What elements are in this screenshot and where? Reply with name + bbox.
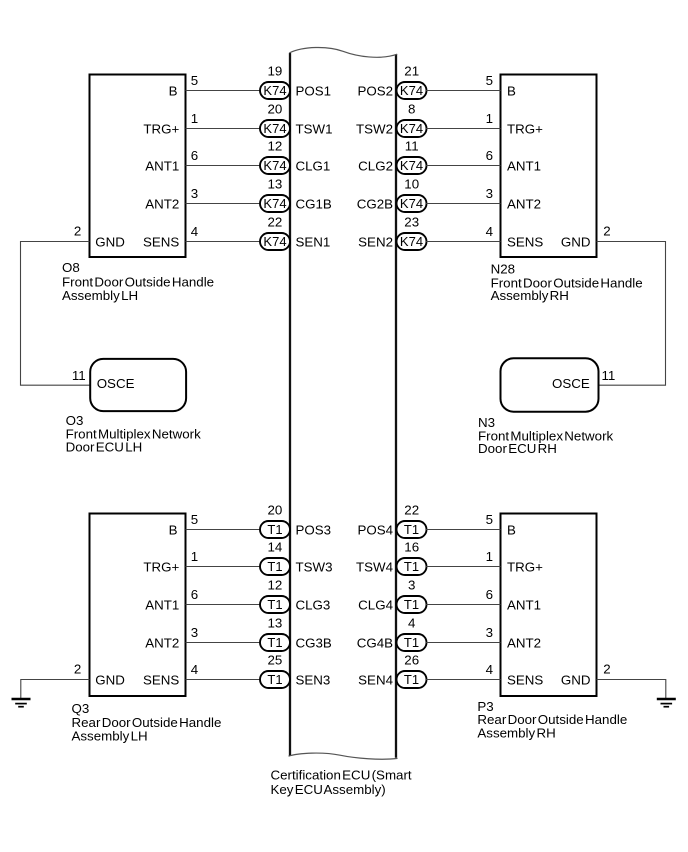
svg-text:11: 11	[602, 368, 616, 383]
svg-text:3: 3	[486, 186, 493, 201]
svg-text:6: 6	[191, 148, 198, 163]
wire CLG1 left	[186, 165, 262, 167]
svg-text:1: 1	[486, 549, 493, 564]
wire POS3 left	[186, 529, 262, 531]
svg-text:6: 6	[486, 587, 493, 602]
svg-text:CLG4: CLG4	[358, 597, 393, 612]
svg-text:CLG2: CLG2	[358, 158, 393, 173]
svg-text:8: 8	[408, 102, 415, 117]
svg-text:Door ECU LH: Door ECU LH	[66, 439, 143, 454]
svg-text:K74: K74	[400, 83, 423, 98]
svg-text:CLG1: CLG1	[296, 158, 331, 173]
svg-text:T1: T1	[267, 559, 282, 574]
svg-text:SEN1: SEN1	[296, 234, 331, 249]
svg-text:T1: T1	[267, 597, 282, 612]
svg-text:K74: K74	[263, 196, 286, 211]
svg-text:ANT1: ANT1	[145, 597, 179, 612]
wire TSW1 left	[186, 128, 262, 130]
N28 pin numbers 5 1 6 3 4	[486, 73, 494, 239]
svg-text:B: B	[169, 522, 178, 537]
wire O8 GND to O3 pin 11	[21, 242, 91, 386]
svg-text:GND: GND	[561, 672, 591, 687]
wire POS4 right	[426, 529, 501, 531]
svg-text:3: 3	[486, 625, 493, 640]
ground symbol left	[12, 699, 31, 707]
svg-text:K74: K74	[263, 234, 286, 249]
svg-text:GND: GND	[95, 234, 125, 249]
ground symbol right	[657, 699, 676, 707]
svg-text:T1: T1	[267, 522, 282, 537]
svg-text:T1: T1	[404, 597, 419, 612]
connector T1 pin 3 right	[397, 596, 427, 613]
caption Q3	[72, 701, 222, 743]
svg-text:ANT2: ANT2	[507, 635, 541, 650]
connector K74 pin 11 right	[397, 157, 427, 174]
svg-text:4: 4	[486, 662, 494, 677]
svg-text:Assembly LH: Assembly LH	[72, 728, 148, 743]
svg-text:T1: T1	[404, 635, 419, 650]
svg-text:23: 23	[404, 215, 419, 230]
svg-text:2: 2	[74, 661, 81, 676]
connector K74 pin 21 right	[397, 82, 427, 99]
svg-text:TSW3: TSW3	[296, 559, 333, 574]
svg-text:OSCE: OSCE	[552, 376, 590, 391]
svg-text:K74: K74	[263, 158, 286, 173]
caption N28	[491, 262, 643, 304]
svg-text:ANT2: ANT2	[145, 635, 179, 650]
svg-text:K74: K74	[400, 158, 423, 173]
wire TSW4 right	[426, 566, 501, 568]
wire POS2 right	[426, 90, 501, 92]
svg-text:T1: T1	[267, 635, 282, 650]
front multiplex network door ECU RH N3	[501, 358, 599, 411]
svg-text:Key ECU Assembly): Key ECU Assembly)	[271, 782, 386, 797]
svg-text:5: 5	[486, 512, 493, 527]
front door outside handle assembly LH O8	[90, 75, 186, 258]
connector T1 pin 12 left	[260, 596, 290, 613]
caption O3	[66, 413, 202, 454]
P3 pin numbers 5 1 6 3 4	[486, 512, 494, 677]
front multiplex network door ECU LH O3	[90, 359, 186, 411]
connector K74 pin 23 right	[397, 233, 427, 250]
P3 pin name labels	[507, 522, 591, 687]
svg-text:ANT2: ANT2	[145, 196, 179, 211]
svg-text:20: 20	[267, 503, 282, 518]
wire SEN1 left	[186, 241, 262, 243]
svg-text:T1: T1	[267, 672, 282, 687]
svg-text:CG2B: CG2B	[357, 196, 393, 211]
N28 pin name labels	[507, 83, 591, 249]
svg-text:GND: GND	[95, 672, 125, 687]
svg-text:25: 25	[267, 653, 282, 668]
svg-text:4: 4	[486, 224, 494, 239]
certification ECU torn bottom edge	[289, 753, 398, 759]
certification ECU bus right edge	[395, 54, 397, 758]
svg-text:19: 19	[267, 64, 282, 79]
Q3 pin name labels	[95, 522, 179, 687]
svg-text:TRG+: TRG+	[507, 559, 543, 574]
certification ECU torn top edge	[289, 47, 397, 57]
svg-text:K74: K74	[400, 196, 423, 211]
wire CG4B right	[426, 642, 501, 644]
connector T1 pin 22 right	[397, 521, 427, 538]
svg-text:2: 2	[74, 223, 81, 238]
connector K74 pin 13 left	[260, 195, 290, 212]
svg-text:K74: K74	[263, 83, 286, 98]
svg-text:4: 4	[191, 224, 199, 239]
svg-text:CG3B: CG3B	[296, 635, 332, 650]
svg-text:ANT1: ANT1	[507, 158, 541, 173]
svg-text:20: 20	[267, 102, 282, 117]
svg-text:K74: K74	[400, 234, 423, 249]
svg-text:Assembly LH: Assembly LH	[62, 288, 138, 303]
svg-text:2: 2	[603, 223, 610, 238]
caption O8	[62, 260, 214, 303]
wire CG1B left	[186, 203, 262, 205]
wire P3 GND to ground	[597, 680, 666, 699]
svg-text:6: 6	[486, 148, 493, 163]
svg-text:TSW1: TSW1	[296, 121, 333, 136]
svg-text:ANT1: ANT1	[145, 158, 179, 173]
wire SEN3 left	[186, 679, 262, 681]
wire SEN2 right	[426, 241, 501, 243]
svg-text:K74: K74	[400, 121, 423, 136]
svg-text:SENS: SENS	[143, 234, 179, 249]
svg-text:SENS: SENS	[143, 672, 179, 687]
svg-text:14: 14	[267, 540, 282, 555]
svg-text:CG1B: CG1B	[296, 196, 332, 211]
connector T1 pin 25 left	[260, 671, 290, 688]
svg-text:SENS: SENS	[507, 672, 543, 687]
svg-text:ANT1: ANT1	[507, 597, 541, 612]
svg-text:O8: O8	[62, 260, 80, 275]
connector T1 pin 4 right	[397, 634, 427, 651]
svg-text:13: 13	[267, 177, 282, 192]
svg-text:1: 1	[191, 549, 198, 564]
connector K74 pin 10 right	[397, 195, 427, 212]
svg-text:POS1: POS1	[296, 83, 332, 98]
svg-text:ANT2: ANT2	[507, 196, 541, 211]
svg-text:T1: T1	[404, 559, 419, 574]
svg-text:4: 4	[191, 662, 199, 677]
svg-text:5: 5	[191, 512, 198, 527]
svg-text:4: 4	[408, 616, 416, 631]
front door outside handle assembly RH N28	[501, 75, 597, 258]
svg-text:B: B	[507, 522, 516, 537]
svg-text:Certification ECU (Smart: Certification ECU (Smart	[271, 768, 412, 783]
svg-text:TSW4: TSW4	[356, 559, 394, 574]
svg-text:TRG+: TRG+	[143, 559, 179, 574]
svg-text:POS3: POS3	[296, 522, 332, 537]
connector K74 pin 8 right	[397, 120, 427, 137]
wire POS1 left	[186, 90, 262, 92]
svg-text:SENS: SENS	[507, 234, 543, 249]
svg-text:12: 12	[267, 578, 282, 593]
svg-text:26: 26	[404, 653, 419, 668]
connector T1 pin 26 right	[397, 671, 427, 688]
svg-text:22: 22	[267, 215, 282, 230]
svg-text:CLG3: CLG3	[296, 597, 331, 612]
connector K74 pin 22 left	[260, 233, 290, 250]
rear door outside handle assembly RH P3	[501, 514, 597, 697]
wire CG3B left	[186, 642, 262, 644]
svg-text:21: 21	[404, 64, 419, 79]
caption P3	[477, 699, 627, 740]
rear door outside handle assembly LH Q3	[90, 514, 186, 697]
wire TSW2 right	[426, 128, 501, 130]
wire CLG4 right	[426, 604, 501, 606]
svg-text:11: 11	[72, 368, 86, 383]
svg-text:CG4B: CG4B	[357, 635, 393, 650]
connector K74 pin 20 left	[260, 120, 290, 137]
svg-text:10: 10	[404, 177, 419, 192]
svg-text:TRG+: TRG+	[143, 121, 179, 136]
svg-text:Assembly RH: Assembly RH	[491, 288, 569, 303]
svg-text:5: 5	[191, 73, 198, 88]
connector T1 pin 16 right	[397, 558, 427, 575]
svg-text:POS2: POS2	[357, 83, 393, 98]
wire CLG2 right	[426, 165, 501, 167]
svg-text:1: 1	[191, 111, 198, 126]
svg-text:22: 22	[404, 503, 419, 518]
svg-text:16: 16	[404, 540, 419, 555]
wire CG2B right	[426, 203, 501, 205]
svg-text:N28: N28	[491, 262, 515, 277]
svg-text:5: 5	[486, 73, 493, 88]
wire N28 GND to N3 pin 11	[597, 242, 666, 386]
svg-text:3: 3	[408, 578, 415, 593]
svg-text:12: 12	[267, 139, 282, 154]
svg-text:1: 1	[486, 111, 493, 126]
svg-text:SEN2: SEN2	[358, 234, 393, 249]
connector T1 pin 20 left	[260, 521, 290, 538]
connector K74 pin 12 left	[260, 157, 290, 174]
wire CLG3 left	[186, 604, 262, 606]
connector T1 pin 13 left	[260, 634, 290, 651]
svg-text:OSCE: OSCE	[97, 376, 135, 391]
svg-text:13: 13	[267, 616, 282, 631]
svg-text:SEN3: SEN3	[296, 672, 331, 687]
svg-text:B: B	[169, 83, 178, 98]
connector K74 pin 19 left	[260, 82, 290, 99]
certification ECU bus left edge	[289, 53, 291, 756]
Q3 pin numbers 5 1 6 3 4	[191, 512, 199, 677]
certification ECU caption	[271, 768, 412, 797]
caption N3	[478, 415, 614, 456]
svg-text:K74: K74	[263, 121, 286, 136]
svg-text:T1: T1	[404, 522, 419, 537]
svg-text:POS4: POS4	[357, 522, 393, 537]
svg-text:TRG+: TRG+	[507, 121, 543, 136]
svg-text:GND: GND	[561, 234, 591, 249]
svg-text:TSW2: TSW2	[356, 121, 393, 136]
wire TSW3 left	[186, 566, 262, 568]
svg-text:11: 11	[405, 139, 419, 154]
svg-text:2: 2	[603, 661, 610, 676]
connector T1 pin 14 left	[260, 558, 290, 575]
svg-text:B: B	[507, 83, 516, 98]
svg-text:6: 6	[191, 587, 198, 602]
wire SEN4 right	[426, 679, 501, 681]
O8 pin numbers 5 1 6 3 4	[191, 73, 199, 239]
O8 pin name labels	[95, 83, 179, 249]
wire Q3 GND to ground	[21, 680, 90, 699]
svg-text:3: 3	[191, 186, 198, 201]
svg-text:Door ECU RH: Door ECU RH	[478, 441, 557, 456]
svg-text:T1: T1	[404, 672, 419, 687]
svg-text:SEN4: SEN4	[358, 672, 393, 687]
svg-text:Assembly RH: Assembly RH	[477, 725, 555, 740]
svg-text:3: 3	[191, 625, 198, 640]
